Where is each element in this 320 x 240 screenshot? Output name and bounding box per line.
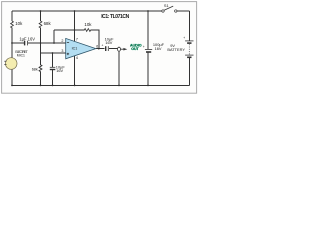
resistor R3 10k feedback	[84, 29, 90, 32]
capacitor C1 1uF 16V	[25, 41, 28, 46]
capacitor C3 10uF 16V output	[106, 46, 109, 51]
wire out jack shield down	[118, 51, 120, 85]
wire C1 to pin 2	[28, 42, 66, 44]
capacitor C4 100uF 16V filter	[145, 49, 152, 52]
wire bottom ground rail	[12, 84, 189, 86]
wire op-amp output to C3	[96, 48, 105, 50]
wire top rail left of switch	[12, 10, 162, 12]
svg-text:3: 3	[61, 49, 63, 53]
svg-text:BATTERY: BATTERY	[167, 47, 185, 52]
svg-text:MIC1: MIC1	[17, 54, 25, 58]
svg-text:+: +	[143, 45, 145, 49]
wire C2 bypass bottom	[52, 70, 54, 86]
wire V+ rail to R1	[11, 11, 13, 21]
wire mic bottom to ground	[11, 69, 13, 85]
op-amp U1 triangle	[66, 38, 96, 58]
junction dots	[11, 10, 149, 86]
svg-text:IC1: TL071CN: IC1: TL071CN	[101, 14, 129, 20]
background	[0, 0, 200, 96]
resistor R4 68k bias lower	[39, 65, 42, 72]
audio out jack	[118, 47, 121, 51]
svg-text:+: +	[102, 43, 104, 47]
svg-text:+: +	[183, 36, 185, 40]
audio out arrow	[121, 48, 124, 50]
wire C4 filter top	[147, 11, 149, 49]
svg-text:S1: S1	[164, 3, 169, 8]
page frame	[2, 2, 197, 94]
wire C2 bypass top	[52, 53, 54, 67]
wire feedback horizontal	[54, 29, 84, 31]
svg-text:10k: 10k	[15, 21, 23, 26]
svg-text:10k: 10k	[84, 22, 92, 27]
wire R1 bottom to mic top	[11, 28, 13, 58]
wire right vertical to battery	[188, 11, 190, 40]
wire battery negative to bottom rail	[188, 58, 190, 85]
svg-text:7: 7	[76, 38, 78, 42]
wire C3 to out jack	[109, 48, 117, 50]
capacitor C2 10uF 16V bypass	[50, 67, 56, 69]
svg-text:IC1: IC1	[72, 46, 78, 50]
svg-text:16V: 16V	[155, 46, 162, 51]
resistor R2 68k	[39, 21, 42, 28]
wire feedback riser left	[53, 30, 55, 43]
resistor R1 10k	[11, 21, 14, 28]
svg-text:16V: 16V	[56, 68, 63, 73]
svg-text:1µF 16V: 1µF 16V	[19, 37, 35, 42]
svg-text:16V: 16V	[105, 40, 112, 45]
svg-text:68k: 68k	[32, 68, 38, 72]
wire top rail right of switch	[177, 10, 189, 12]
wire R2 bottom to pin3 corner	[40, 28, 42, 54]
electret microphone MIC1	[5, 58, 17, 70]
switch S1	[162, 10, 164, 12]
wire feedback right to output riser	[91, 30, 99, 49]
wire R2 top	[40, 11, 42, 21]
svg-text:4: 4	[76, 56, 78, 60]
svg-text:68k: 68k	[44, 21, 52, 26]
svg-text:OUT: OUT	[131, 47, 139, 51]
wire R4 top from pin3 node	[40, 53, 42, 65]
wire pin 7 to top rail	[74, 11, 76, 42]
wire mic node to C1	[12, 42, 24, 44]
wire C4 filter bottom	[147, 53, 149, 86]
battery BT1 9V	[185, 41, 193, 57]
wire R4 bottom to ground	[40, 72, 42, 86]
wire pin 4 to ground	[74, 55, 76, 85]
wire pin 3 horizontal	[41, 52, 67, 54]
svg-text:6: 6	[96, 44, 98, 48]
svg-text:2: 2	[61, 39, 63, 43]
